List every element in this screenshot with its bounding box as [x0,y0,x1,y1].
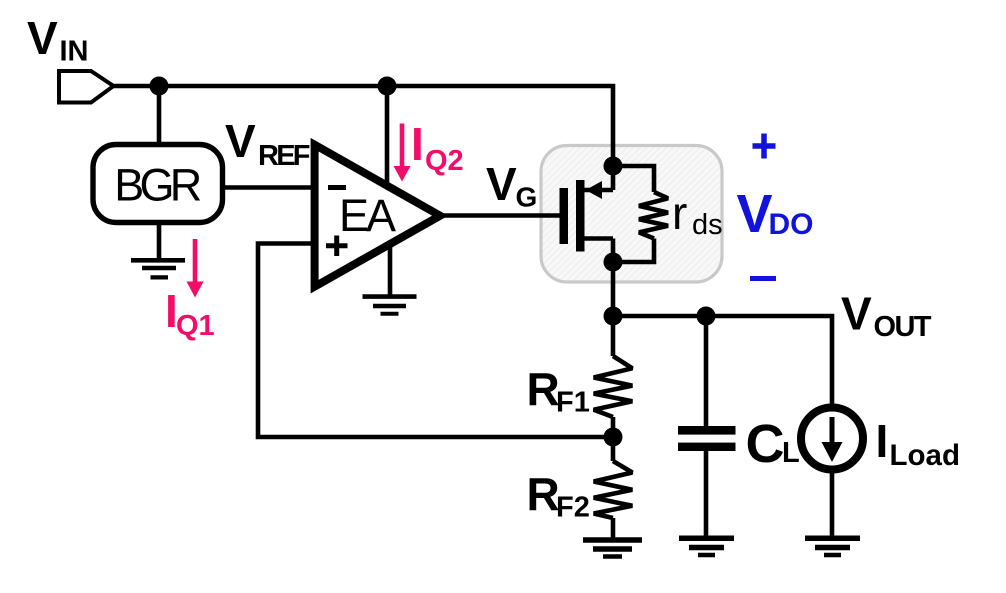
svg-text:V: V [225,115,256,167]
svg-text:r: r [672,187,687,239]
svg-text:I: I [876,415,889,467]
svg-text:ds: ds [692,209,723,241]
svg-text:Load: Load [890,439,960,472]
svg-text:OUT: OUT [874,311,932,343]
svg-text:Q2: Q2 [425,145,464,177]
svg-text:V: V [27,12,58,64]
svg-text:V: V [841,288,872,340]
svg-text:L: L [782,437,800,469]
svg-text:C: C [746,414,785,474]
svg-text:R: R [527,468,560,520]
svg-text:F2: F2 [556,492,590,524]
svg-text:V: V [486,158,517,210]
svg-text:I: I [411,118,424,170]
svg-text:V: V [737,184,773,244]
svg-text:R: R [527,363,560,415]
svg-text:G: G [516,182,538,213]
svg-text:DO: DO [769,208,814,241]
svg-text:EA: EA [339,190,396,241]
svg-text:IN: IN [60,36,89,68]
svg-text:F1: F1 [556,387,590,419]
svg-text:Q1: Q1 [176,310,215,342]
svg-text:BGR: BGR [114,160,202,211]
svg-text:REF: REF [258,140,311,172]
